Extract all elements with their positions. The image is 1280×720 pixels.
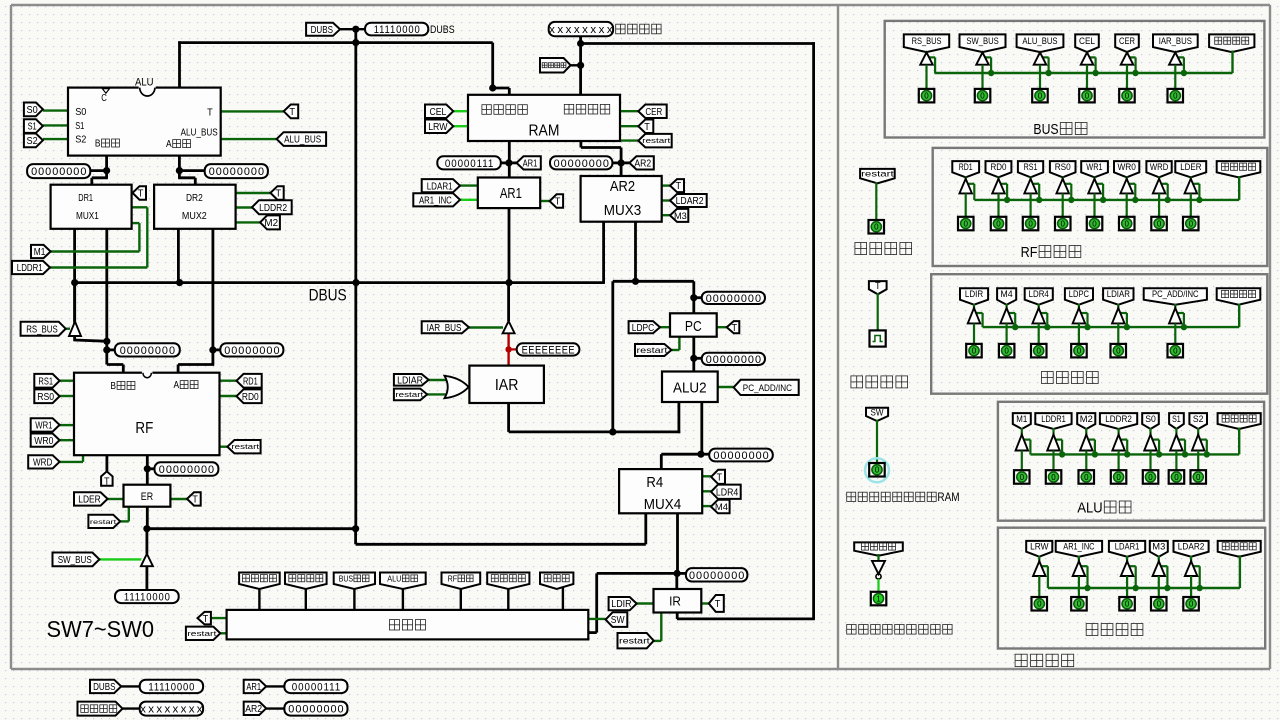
svg-text:0: 0 [1157, 220, 1162, 229]
svg-text:S0: S0 [27, 105, 39, 116]
svg-text:xxxxxxxx: xxxxxxxx [140, 704, 205, 716]
svg-text:T: T [289, 107, 295, 118]
svg-text:LDDR2: LDDR2 [1105, 414, 1132, 425]
svg-text:EEEEEEEE: EEEEEEEE [522, 344, 576, 356]
svg-text:0: 0 [1038, 92, 1043, 101]
svg-text:T: T [104, 477, 110, 488]
svg-text:RD1: RD1 [959, 162, 973, 173]
svg-text:0: 0 [1085, 92, 1090, 101]
svg-text:SW: SW [611, 615, 625, 626]
svg-text:DR2: DR2 [186, 193, 203, 204]
svg-text:00000111: 00000111 [292, 681, 341, 693]
svg-text:WRD: WRD [33, 457, 52, 468]
svg-text:T: T [203, 614, 209, 625]
svg-text:0: 0 [1037, 347, 1042, 356]
svg-text:A: A [174, 380, 180, 391]
svg-text:IR: IR [669, 593, 681, 608]
svg-text:AR2: AR2 [610, 178, 635, 195]
svg-text:0: 0 [1084, 473, 1089, 482]
svg-text:RF: RF [1021, 244, 1038, 261]
svg-text:0: 0 [1051, 473, 1056, 482]
svg-text:0: 0 [1148, 473, 1153, 482]
svg-text:0: 0 [1077, 347, 1082, 356]
svg-text:0: 0 [1125, 92, 1130, 101]
svg-text:RAM: RAM [529, 123, 560, 140]
svg-text:M3: M3 [1152, 542, 1165, 553]
svg-text:restart: restart [637, 346, 669, 355]
svg-text:restart: restart [231, 443, 259, 451]
svg-text:PC_ADD/INC: PC_ADD/INC [1152, 289, 1199, 299]
svg-text:ALU_BUS: ALU_BUS [1022, 36, 1057, 47]
svg-text:S0: S0 [1145, 414, 1156, 425]
svg-text:DUBS: DUBS [430, 24, 455, 36]
svg-text:xxxxxxxx: xxxxxxxx [549, 24, 615, 36]
svg-text:MUX2: MUX2 [182, 211, 207, 222]
svg-text:WR0: WR0 [34, 436, 54, 447]
svg-text:00000111: 00000111 [445, 158, 494, 170]
svg-text:0: 0 [980, 92, 985, 101]
svg-text:0: 0 [1116, 473, 1121, 482]
svg-text:T: T [676, 181, 682, 192]
svg-text:RS_BUS: RS_BUS [26, 324, 58, 335]
svg-text:00000000: 00000000 [31, 166, 87, 178]
svg-text:M2: M2 [264, 218, 278, 229]
svg-text:DUBS: DUBS [93, 682, 116, 693]
svg-text:S2: S2 [27, 136, 39, 147]
svg-text:0: 0 [996, 220, 1001, 229]
svg-text:CEL: CEL [430, 107, 447, 118]
svg-text:RF: RF [135, 420, 153, 437]
svg-text:DR1: DR1 [78, 193, 93, 204]
svg-text:LRW: LRW [428, 122, 448, 133]
svg-text:0: 0 [1116, 347, 1121, 356]
svg-text:LDER: LDER [78, 495, 100, 506]
svg-text:T: T [717, 473, 723, 484]
svg-text:LDIR: LDIR [965, 289, 984, 299]
svg-text:PC: PC [685, 318, 702, 335]
svg-text:ALU: ALU [387, 573, 401, 583]
svg-text:LDR4: LDR4 [1029, 289, 1049, 299]
svg-text:LDDR1: LDDR1 [17, 263, 43, 274]
svg-text:M4: M4 [715, 502, 729, 513]
svg-text:RD1: RD1 [243, 376, 258, 387]
svg-text:0: 0 [1028, 220, 1033, 229]
svg-text:0: 0 [1125, 220, 1130, 229]
svg-text:restart: restart [187, 629, 216, 638]
svg-text:ALU2: ALU2 [673, 379, 707, 396]
svg-text:00000000: 00000000 [288, 704, 344, 716]
svg-text:B: B [95, 139, 101, 150]
svg-text:0: 0 [1189, 600, 1194, 609]
svg-text:SW: SW [871, 407, 884, 418]
svg-text:MUX3: MUX3 [604, 202, 641, 219]
svg-text:LDIAR: LDIAR [1107, 289, 1131, 299]
svg-text:WR1: WR1 [1086, 162, 1102, 173]
svg-text:RD0: RD0 [991, 162, 1007, 173]
svg-text:restart: restart [619, 637, 651, 646]
svg-text:0: 0 [1077, 600, 1082, 609]
svg-text:0: 0 [1189, 220, 1194, 229]
svg-text:0: 0 [972, 347, 977, 356]
svg-text:IAR_BUS: IAR_BUS [427, 323, 462, 334]
svg-text:ER: ER [141, 491, 153, 503]
svg-text:T: T [644, 122, 650, 133]
svg-text:0: 0 [874, 223, 879, 232]
svg-text:S1: S1 [75, 121, 84, 132]
svg-text:CER: CER [1119, 36, 1135, 47]
svg-text:BUS: BUS [339, 573, 354, 583]
svg-text:CER: CER [645, 107, 662, 118]
svg-text:PC_ADD/INC: PC_ADD/INC [743, 383, 792, 394]
svg-text:00000000: 00000000 [209, 166, 265, 178]
svg-text:T: T [875, 281, 881, 292]
svg-text:RAM: RAM [937, 492, 959, 504]
svg-text:00000000: 00000000 [706, 293, 762, 305]
svg-text:S2: S2 [1193, 414, 1204, 425]
svg-text:T: T [207, 108, 213, 119]
svg-text:00000000: 00000000 [120, 345, 176, 357]
svg-text:LDIR: LDIR [611, 599, 631, 610]
svg-text:WR1: WR1 [35, 421, 53, 432]
svg-text:0: 0 [1061, 220, 1066, 229]
svg-text:0: 0 [924, 92, 929, 101]
svg-text:LDAR2: LDAR2 [676, 196, 704, 207]
svg-text:LDPC: LDPC [632, 323, 654, 334]
svg-text:RD0: RD0 [242, 392, 259, 403]
svg-text:AR1_INC: AR1_INC [1063, 542, 1094, 553]
svg-text:LDER: LDER [1180, 162, 1201, 173]
svg-text:0: 0 [1173, 92, 1178, 101]
svg-text:00000000: 00000000 [554, 158, 610, 170]
svg-text:MUX4: MUX4 [644, 496, 681, 513]
svg-text:WR0: WR0 [1118, 162, 1136, 173]
svg-text:MUX1: MUX1 [76, 211, 99, 222]
svg-text:AR1_INC: AR1_INC [419, 195, 452, 206]
svg-text:T: T [555, 197, 561, 208]
svg-text:00000000: 00000000 [224, 345, 280, 357]
svg-text:00000000: 00000000 [706, 354, 762, 366]
svg-text:M1: M1 [1016, 414, 1027, 425]
svg-text:T: T [276, 189, 282, 200]
svg-text:11110000: 11110000 [374, 24, 421, 36]
svg-text:LDDR2: LDDR2 [259, 203, 287, 214]
svg-text:00000000: 00000000 [689, 570, 745, 582]
svg-text:S2: S2 [75, 135, 87, 146]
svg-text:restart: restart [642, 137, 670, 145]
svg-text:AR2: AR2 [245, 704, 262, 715]
svg-text:RS_BUS: RS_BUS [912, 36, 942, 47]
svg-text:T: T [715, 599, 721, 610]
svg-text:RS1: RS1 [1024, 162, 1038, 173]
svg-text:SW_BUS: SW_BUS [966, 36, 998, 47]
svg-text:0: 0 [1196, 473, 1201, 482]
svg-text:0: 0 [1020, 473, 1025, 482]
svg-text:restart: restart [861, 169, 895, 179]
svg-text:B: B [110, 381, 116, 392]
svg-text:LDR4: LDR4 [716, 487, 739, 498]
svg-text:AR2: AR2 [634, 159, 651, 170]
svg-text:LRW: LRW [1030, 542, 1048, 553]
svg-text:11110000: 11110000 [148, 681, 195, 693]
svg-text:0: 0 [1157, 600, 1162, 609]
svg-text:DUBS: DUBS [311, 25, 334, 36]
svg-text:A: A [166, 139, 172, 150]
svg-text:RS0: RS0 [1055, 162, 1071, 173]
svg-text:0: 0 [1125, 600, 1130, 609]
svg-text:LDAR1: LDAR1 [1115, 542, 1140, 553]
svg-text:1: 1 [876, 594, 881, 603]
svg-text:M1: M1 [34, 247, 46, 258]
svg-text:LDDR1: LDDR1 [1041, 414, 1066, 425]
svg-text:T: T [192, 495, 198, 506]
svg-text:DBUS: DBUS [309, 285, 347, 304]
svg-text:11110000: 11110000 [124, 592, 171, 604]
svg-text:T: T [732, 323, 738, 334]
svg-text:ALU: ALU [135, 77, 154, 89]
svg-text:AR1: AR1 [500, 185, 522, 202]
svg-text:T: T [138, 189, 144, 200]
svg-text:IAR_BUS: IAR_BUS [1159, 36, 1192, 47]
svg-text:S1: S1 [28, 122, 37, 133]
svg-text:S0: S0 [75, 107, 87, 118]
svg-text:RS0: RS0 [37, 392, 54, 403]
svg-text:SW_BUS: SW_BUS [58, 555, 92, 566]
svg-text:00000000: 00000000 [159, 464, 215, 476]
svg-text:LDAR1: LDAR1 [427, 181, 453, 192]
svg-text:00000000: 00000000 [713, 450, 769, 462]
svg-text:restart: restart [395, 391, 423, 399]
svg-text:M4: M4 [1000, 289, 1012, 299]
svg-text:0: 0 [1174, 473, 1179, 482]
svg-text:C: C [101, 93, 107, 104]
svg-text:LDIAR: LDIAR [397, 375, 423, 386]
svg-text:LDPC: LDPC [1069, 289, 1090, 299]
svg-text:0: 0 [1092, 220, 1097, 229]
svg-text:AR1: AR1 [523, 159, 538, 170]
svg-text:M3: M3 [674, 211, 687, 221]
svg-text:R4: R4 [646, 474, 663, 491]
svg-text:0: 0 [964, 220, 969, 229]
svg-text:restart: restart [90, 519, 116, 526]
svg-text:0: 0 [1037, 600, 1042, 609]
svg-text:SW7~SW0: SW7~SW0 [47, 616, 155, 642]
svg-text:LDAR2: LDAR2 [1178, 542, 1205, 553]
svg-text:AR1: AR1 [246, 682, 261, 693]
svg-text:ALU_BUS: ALU_BUS [284, 135, 321, 146]
svg-text:BUS: BUS [1033, 121, 1058, 138]
svg-text:WRD: WRD [1150, 162, 1169, 173]
svg-text:IAR: IAR [495, 377, 519, 394]
svg-text:ALU_BUS: ALU_BUS [181, 128, 218, 139]
svg-text:RS1: RS1 [38, 376, 53, 387]
svg-text:0: 0 [1004, 347, 1009, 356]
svg-text:M2: M2 [1080, 414, 1093, 425]
svg-text:ALU: ALU [1077, 499, 1102, 516]
svg-text:0: 0 [875, 466, 880, 475]
svg-text:S1: S1 [1172, 414, 1181, 425]
svg-text:RF: RF [448, 573, 458, 583]
svg-text:0: 0 [1173, 347, 1178, 356]
svg-text:CEL: CEL [1079, 36, 1095, 47]
